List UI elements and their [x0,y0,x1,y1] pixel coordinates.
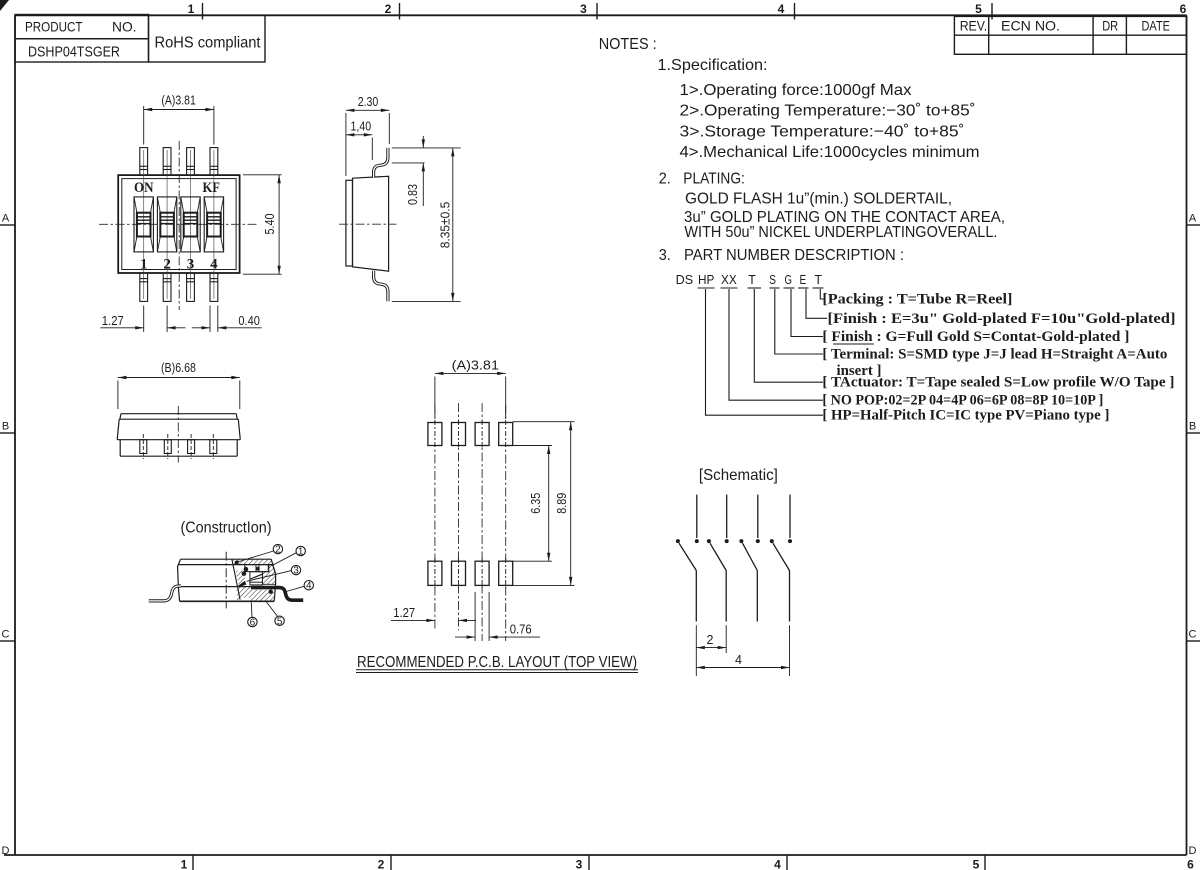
pcb dimension (A)3.81 [435,373,506,418]
svg-text:ON: ON [134,180,154,196]
svg-text:4: 4 [306,581,312,592]
construction terminal lead right [251,588,303,601]
svg-text:5: 5 [973,858,980,870]
callout 3 [247,565,301,581]
svg-text:[ TActuator: T=Tape sealed S=: [ TActuator: T=Tape sealed S=Low profile… [822,375,1174,391]
svg-text:2.30: 2.30 [358,95,379,109]
svg-text:2>.Operating Temperature:−30˚: 2>.Operating Temperature:−30˚ to+85˚ [680,103,976,120]
svg-text:4>.Mechanical Life:1000cycles: 4>.Mechanical Life:1000cycles minimum [680,144,980,161]
callout 2 [238,544,283,562]
schematic dimension 2 [696,625,726,676]
pin 5 bottom [210,273,218,301]
svg-text:DS: DS [676,273,694,287]
svg-text:[Schematic]: [Schematic] [699,467,778,484]
svg-text:(A)3.81: (A)3.81 [452,359,499,373]
switch S1 front view body [117,414,240,457]
callout 6 [248,602,257,628]
svg-text:2: 2 [275,545,281,556]
svg-text:(A)3.81: (A)3.81 [161,94,195,108]
svg-text:5: 5 [277,616,283,627]
pcb pad 8 bottom [499,561,513,585]
svg-text:A: A [1189,213,1197,225]
pcb pad 7 bottom [475,561,489,585]
switch S1 top view body [118,175,239,273]
pin 4 top [210,148,218,176]
svg-text:1.27: 1.27 [393,606,415,620]
part number description lines [822,292,1175,424]
construction lid hatch [232,559,273,564]
svg-text:A: A [2,213,10,225]
callout 4 [285,581,314,593]
construction body outline [178,559,276,601]
svg-text:1.Specification:: 1.Specification: [658,57,768,74]
svg-text:S: S [769,273,776,287]
svg-text:NOTES :: NOTES : [599,36,657,53]
schematic switch SW3 [743,495,758,622]
front view centerline [177,406,179,463]
svg-text:6: 6 [1187,858,1194,870]
svg-text:DATE: DATE [1142,18,1171,34]
svg-text:[Finish : E=3u" Gold-plated F=: [Finish : E=3u" Gold-plated F=10u"Gold-p… [828,311,1176,327]
svg-text:PRODUCT: PRODUCT [25,19,83,35]
svg-text:3: 3 [187,257,195,273]
svg-text:NO.: NO. [112,19,137,35]
schematic switch SW2 [710,495,727,622]
construction section boundary [232,559,240,599]
pcb layout column centerlines [435,403,506,641]
svg-text:2.: 2. [659,171,671,188]
construction contact rivets [235,560,273,594]
svg-text:4: 4 [778,2,785,16]
part number leader lines [706,289,828,415]
front view pin 4 [210,434,217,459]
pin 8 bottom [140,273,148,301]
dimension 1.27 top view [100,306,185,333]
construction left lead [149,586,181,601]
svg-text:5: 5 [975,2,982,16]
pcb dimension 0.76 [455,592,540,641]
svg-text:4: 4 [774,858,781,870]
svg-text:2: 2 [163,257,171,273]
svg-text:8.89: 8.89 [555,493,569,514]
svg-text:3: 3 [576,858,583,870]
svg-text:T: T [748,273,756,287]
pcb pad 1 top [428,423,442,446]
dimension 0.40 top view [192,306,262,333]
svg-text:2: 2 [378,858,385,870]
pad center dashes [435,420,506,588]
top view center lines [99,141,257,310]
side view top lead [374,148,388,178]
svg-text:DSHP04TSGER: DSHP04TSGER [28,44,120,61]
svg-text:REV.: REV. [960,18,988,34]
actuator 1 [134,197,153,252]
svg-text:RECOMMENDED P.C.B. LAYOUT (TOP: RECOMMENDED P.C.B. LAYOUT (TOP VIEW) [357,654,637,671]
pin 1 top [140,148,148,176]
pcb pad 2 top [452,423,466,446]
svg-text:4: 4 [735,653,742,667]
schematic dimension 4 [696,625,789,676]
svg-text:3.: 3. [659,247,671,264]
svg-text:(ConstructIon): (ConstructIon) [181,520,272,537]
title block product no [15,15,265,63]
svg-text:RoHS compliant: RoHS compliant [155,35,262,52]
side view centerline [339,223,397,225]
svg-text:3: 3 [580,2,587,16]
schematic switch SW1 [679,495,697,622]
side view bottom lead [374,271,388,302]
construction lower hatch [237,587,275,602]
svg-text:KF: KF [203,180,221,196]
pcb dimension 6.35 [513,422,575,586]
actuator 4 [204,197,223,252]
svg-text:4: 4 [210,257,218,273]
svg-text:GOLD FLASH 1u”(min.) SOLDERTAI: GOLD FLASH 1u”(min.) SOLDERTAIL, [685,190,952,207]
dimension 1.40 side view [346,135,372,160]
pin 2 top [163,148,171,176]
actuator 3 [181,197,200,252]
construction small left hatch [236,571,247,587]
construction contact block [250,572,263,585]
svg-text:C: C [2,629,10,641]
svg-text:1: 1 [181,858,188,870]
svg-text:1.27: 1.27 [102,314,124,328]
part number code row [676,273,823,287]
svg-text:DR: DR [1102,18,1118,34]
position numbers 1 2 3 4 [140,257,218,273]
svg-text:3: 3 [293,566,299,577]
pcb pad 4 top [499,423,513,446]
pcb dimension 1.27 [391,619,476,621]
construction right hatch block [262,565,275,585]
front view pin 1 [140,434,147,459]
svg-text:[ Finish : G=Full Gold S=Cont: [ Finish : G=Full Gold S=Contat-Gold-pla… [822,329,1129,345]
svg-text:0.76: 0.76 [510,623,532,637]
svg-text:[ NO POP:02=2P 04=4P 06=6P 08=: [ NO POP:02=2P 04=4P 06=6P 08=8P 10=10P … [822,393,1103,409]
svg-text:2: 2 [707,633,714,647]
pcb dimension 8.89 [569,422,572,431]
switch S1 side view body [346,176,389,271]
pcb pad 3 top [475,423,489,446]
dimension 2.30 side view [346,110,389,176]
svg-text:D: D [2,845,10,857]
callout 5 [267,602,285,627]
svg-text:1: 1 [298,547,304,558]
svg-text:(B)6.68: (B)6.68 [161,361,196,375]
svg-text:PART NUMBER DESCRIPTION :: PART NUMBER DESCRIPTION : [684,247,904,264]
dimension 5.40 top view [243,175,282,274]
svg-text:D: D [1189,845,1197,857]
svg-text:B: B [2,421,9,433]
svg-text:1: 1 [188,2,195,16]
svg-text:[ HP=Half-Pitch IC=IC type PV=: [ HP=Half-Pitch IC=IC type PV=Piano type… [822,408,1109,424]
construction centerline [225,552,227,609]
svg-text:E: E [800,273,807,287]
construction slider cap [245,565,268,572]
svg-text:T: T [815,273,823,287]
dimension 0.83 side view [392,136,425,206]
svg-text:PLATING:: PLATING: [683,171,745,188]
callout 1 [272,546,305,565]
schematic switch SW4 [773,495,790,622]
svg-text:[Packing : T=Tube R=Reel]: [Packing : T=Tube R=Reel] [822,292,1012,308]
svg-text:6.35: 6.35 [529,493,543,514]
svg-text:1: 1 [140,257,148,273]
svg-text:3>.Storage Temperature:−40˚ to: 3>.Storage Temperature:−40˚ to+85˚ [680,123,965,140]
svg-text:5.40: 5.40 [263,213,277,234]
svg-text:0.40: 0.40 [238,314,260,328]
svg-text:G: G [785,273,793,287]
svg-text:ECN NO.: ECN NO. [1001,18,1060,34]
svg-text:WITH 50u” NICKEL UNDERPLATINGO: WITH 50u” NICKEL UNDERPLATINGOVERALL. [684,224,997,241]
svg-text:XX: XX [721,273,737,287]
svg-text:1,40: 1,40 [351,120,372,134]
svg-text:8.35±0.5: 8.35±0.5 [439,202,453,249]
dimension (A)3.81 top view [144,106,214,145]
dimension 8.35±0.5 side view [392,148,461,302]
svg-text:6: 6 [250,618,256,629]
actuator 2 [157,197,176,252]
thin pin axis lines [144,150,214,299]
svg-text:6: 6 [1180,2,1187,16]
revision table [954,16,1186,54]
front view pin 3 [188,434,195,459]
pin 7 bottom [163,273,171,301]
pcb pad 6 bottom [452,561,466,585]
pin 6 bottom [187,273,195,301]
svg-text:HP: HP [698,273,714,287]
svg-text:C: C [1189,629,1197,641]
pin 3 top [187,148,195,176]
svg-text:0.83: 0.83 [406,184,420,205]
dimension (B)6.68 front view [118,378,240,410]
pcb pad 5 bottom [428,561,442,585]
front view pin 2 [164,434,171,459]
svg-text:B: B [1189,421,1196,433]
svg-text:1>.Operating force:1000gf Max: 1>.Operating force:1000gf Max [680,82,912,99]
svg-text:[ Terminal: S=SMD type J=J le: [ Terminal: S=SMD type J=J lead H=Straig… [822,347,1167,363]
svg-text:2: 2 [385,2,392,16]
